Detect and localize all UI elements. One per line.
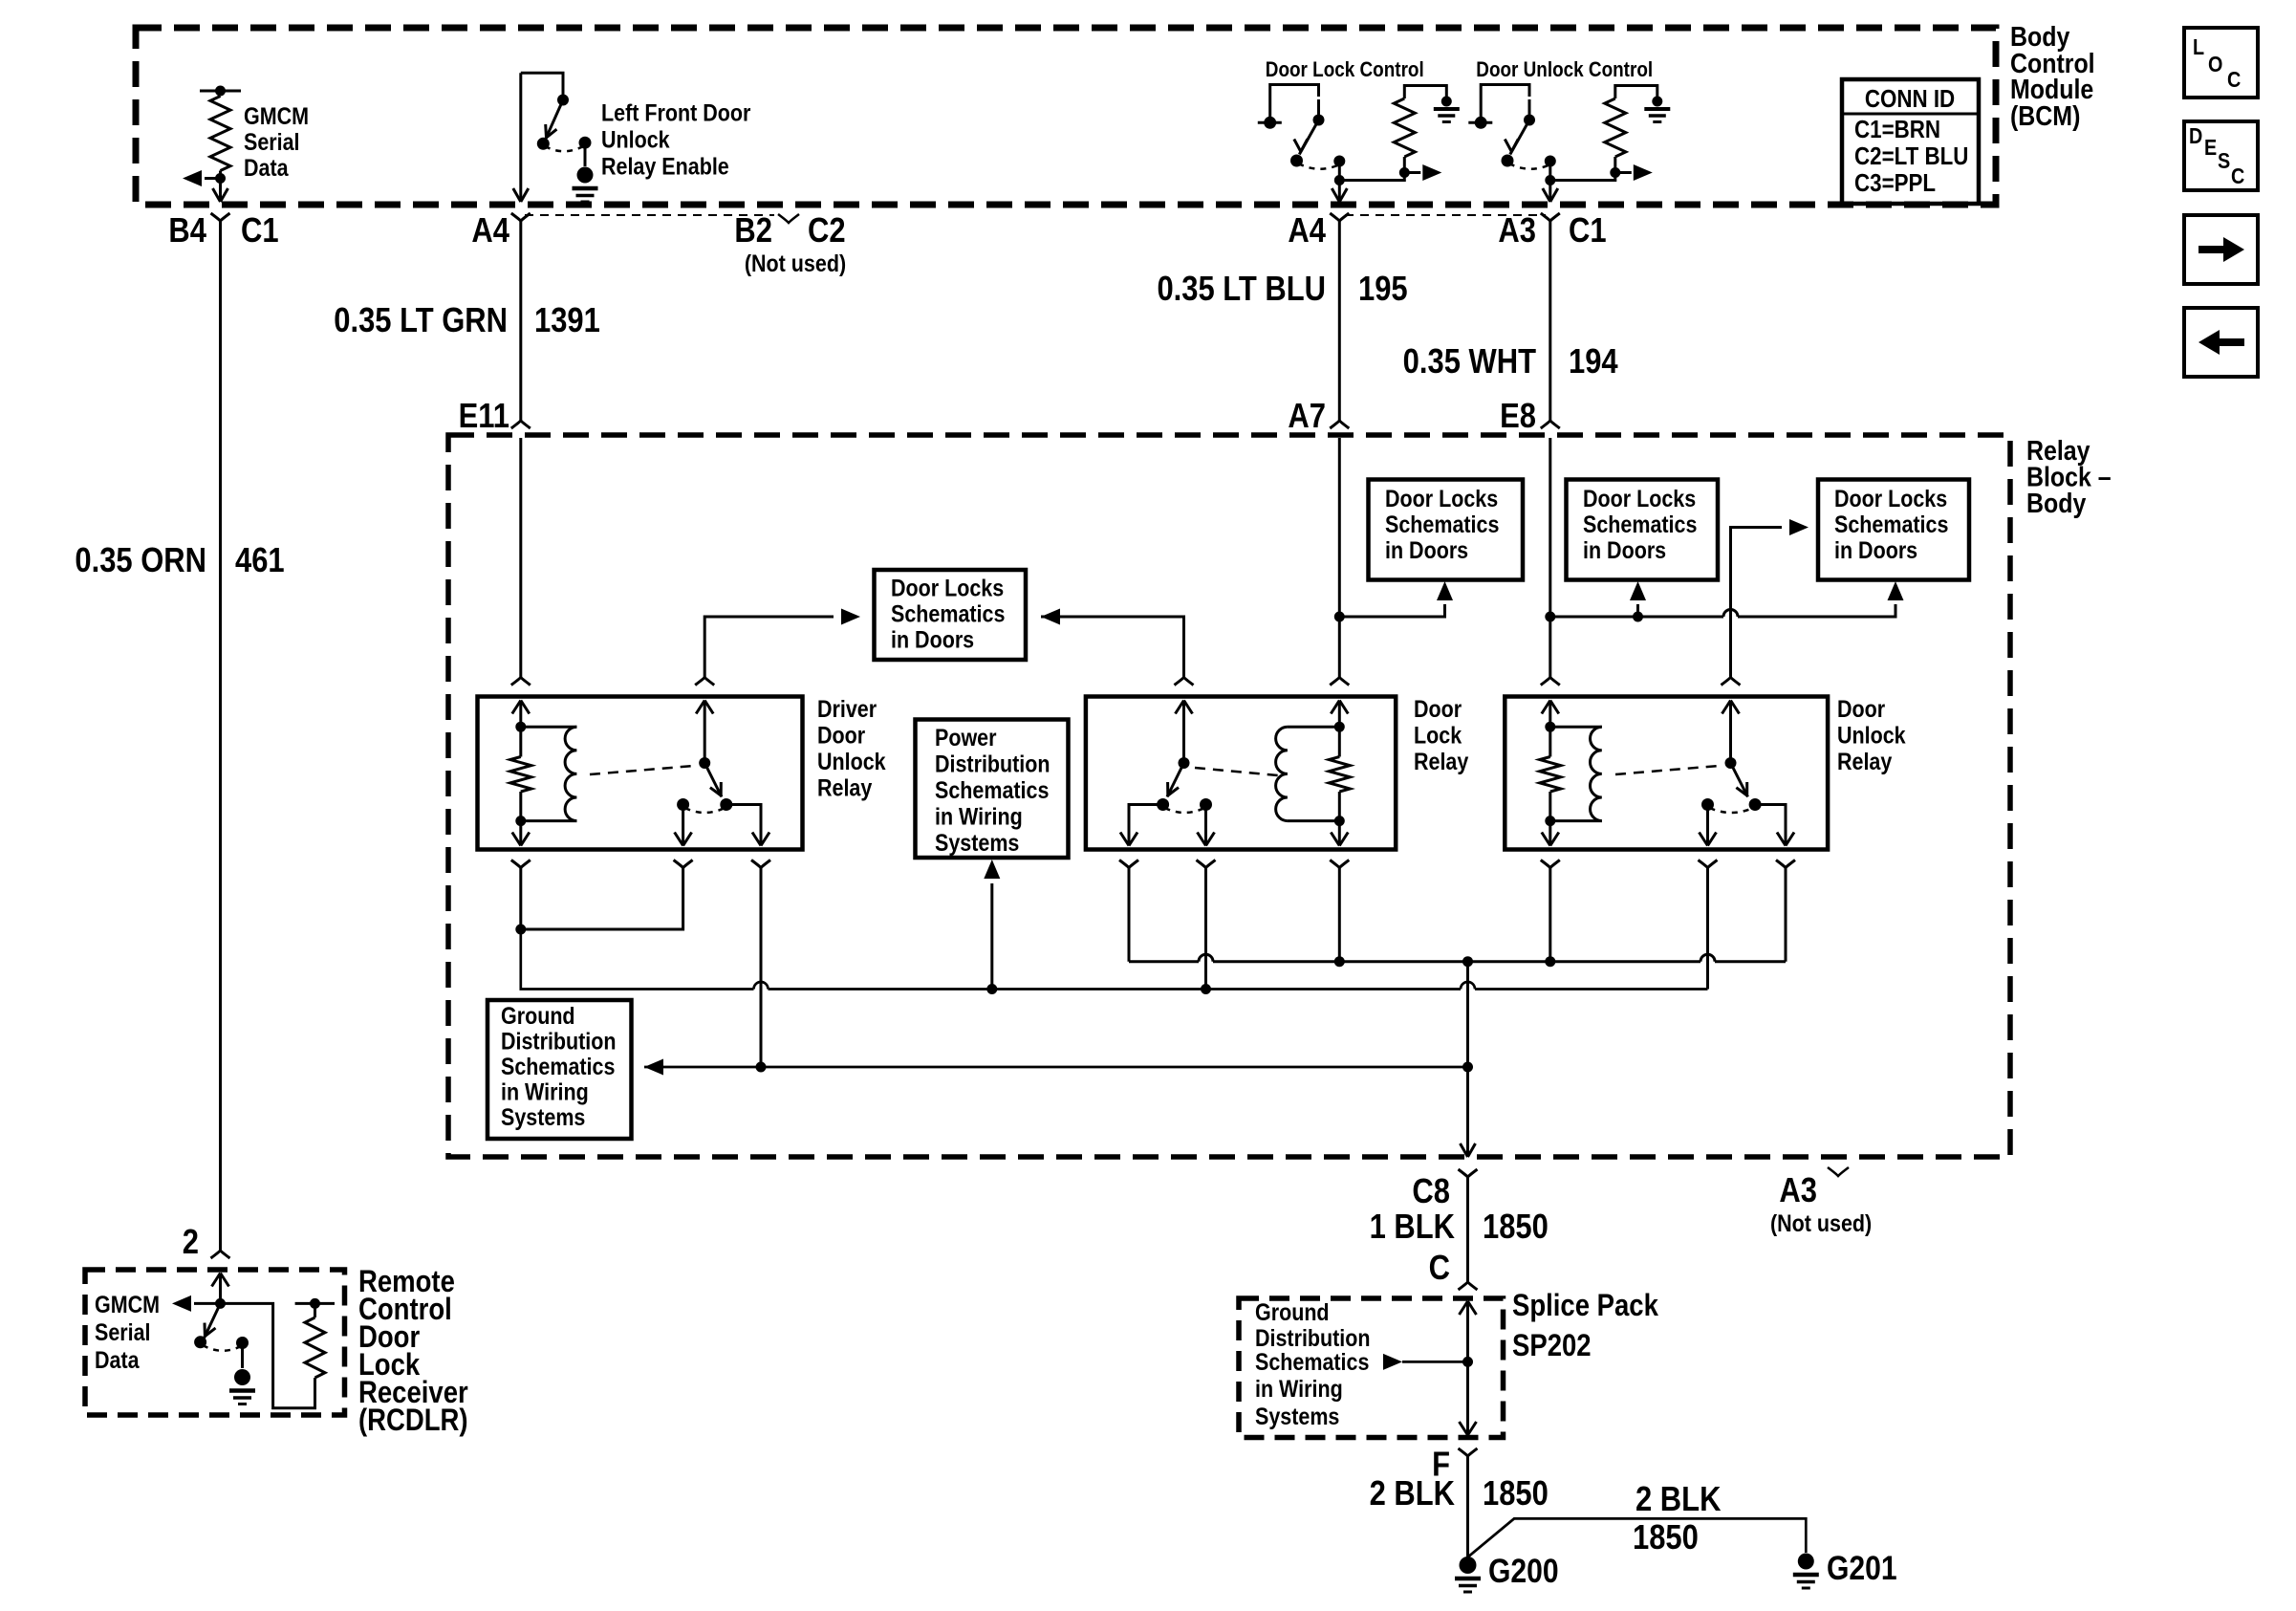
arrow down at BCM border (B4): [213, 188, 228, 202]
svg-text:in Wiring: in Wiring: [501, 1078, 589, 1105]
wire right contact out: [1755, 805, 1786, 846]
arrow GMCM serial data (RCDLR, solid left): [172, 1295, 191, 1312]
junction: [1334, 612, 1345, 622]
connector E11: [511, 421, 531, 428]
wire to ground: [584, 142, 587, 166]
arrow down at relay block border (C8): [1461, 1143, 1476, 1157]
svg-text:in Wiring: in Wiring: [935, 803, 1023, 830]
svg-text:Power: Power: [935, 724, 996, 751]
junction: [1334, 722, 1345, 732]
svg-text:Systems: Systems: [935, 829, 1019, 856]
svg-text:in Wiring: in Wiring: [1255, 1375, 1343, 1402]
wire A4 drop inside BCM: [519, 73, 522, 202]
wire C8 riser: [1466, 962, 1469, 1157]
svg-text:B2: B2: [734, 212, 772, 250]
connector relay switch pin (top): [1722, 678, 1741, 686]
junction: [1462, 1062, 1473, 1073]
junction: [1545, 722, 1555, 732]
connector C2 stub (not used): [778, 214, 799, 223]
box Door Locks Schematics in Doors (1): [875, 570, 1027, 660]
arrow into Door Locks box 1 (left): [841, 609, 860, 625]
svg-text:Ground: Ground: [1255, 1298, 1330, 1325]
svg-text:1 BLK: 1 BLK: [1370, 1208, 1455, 1247]
wire switch arm: [1510, 99, 1529, 155]
svg-text:Schematics: Schematics: [891, 600, 1005, 627]
wire A4 to E11 (0.35 LT GRN 1391): [519, 221, 522, 421]
svg-text:Door Locks: Door Locks: [891, 575, 1004, 601]
relay box Door Unlock Relay: [1505, 697, 1828, 850]
relay box Door Lock Relay: [1086, 697, 1396, 850]
arrow (internal, solid right): [1404, 171, 1420, 174]
svg-text:195: 195: [1358, 271, 1408, 309]
wire E8 to unlock relay coil: [1549, 438, 1551, 659]
svg-text:1391: 1391: [534, 302, 600, 340]
wire to ground: [241, 1343, 244, 1369]
connector F: [1459, 1448, 1478, 1456]
switch dashed arc: [1710, 808, 1754, 813]
wire A7 to lock relay coil: [1338, 438, 1341, 659]
junction bus P: [1334, 956, 1345, 967]
pin arrow (RCDLR top): [212, 1274, 229, 1287]
svg-text:Relay: Relay: [1414, 748, 1468, 774]
junction bus P: [1545, 956, 1555, 967]
svg-text:Systems: Systems: [501, 1103, 585, 1130]
switch pivot: [699, 757, 710, 769]
wire common drop: [1549, 162, 1551, 203]
wire left contact out: [1129, 805, 1163, 846]
wire: [1481, 85, 1529, 123]
arrow into Door Locks box 3: [1630, 581, 1646, 600]
connector below box: [751, 860, 770, 868]
box Door Locks Schematics in Doors (3): [1567, 480, 1719, 580]
svg-text:A3: A3: [1779, 1172, 1817, 1210]
wire left contact down: [1706, 805, 1709, 846]
svg-text:Driver: Driver: [817, 695, 877, 722]
arrow into Door Locks box 4 (bottom): [1888, 581, 1904, 600]
switch dashed arc: [1509, 163, 1550, 169]
svg-text:Schematics: Schematics: [1583, 511, 1697, 537]
switch arm: [546, 100, 564, 141]
wire resistor top stub: [295, 1303, 335, 1317]
wire E11 to relay: [519, 438, 522, 659]
node common: [1333, 156, 1345, 167]
connector A7: [1330, 421, 1349, 428]
svg-text:Data: Data: [95, 1346, 141, 1373]
svg-text:194: 194: [1569, 343, 1618, 381]
connector C (splice pack): [1459, 1282, 1478, 1290]
arrow down at BCM border (A4): [513, 188, 529, 202]
svg-text:CONN ID: CONN ID: [1865, 85, 1955, 113]
switch Door Unlock Control contact stub: [1468, 121, 1492, 124]
coil door unlock relay: [1550, 726, 1602, 729]
wire common drop: [1338, 162, 1341, 203]
junction: [215, 86, 226, 97]
svg-text:A4: A4: [1288, 212, 1326, 250]
svg-text:A3: A3: [1498, 212, 1536, 250]
resistor relay coil (unlock): [1549, 727, 1551, 756]
svg-text:Relay: Relay: [1837, 748, 1892, 774]
table CONN ID box: [1842, 79, 1979, 204]
svg-text:Door Locks: Door Locks: [1834, 485, 1947, 512]
switch contact: [1264, 117, 1276, 129]
connector C1 pin A4: [511, 213, 531, 221]
wire from Door Locks box 1 to lock relay pivot: [1041, 617, 1184, 659]
junction: [1633, 612, 1643, 622]
ground Door Lock Control: [1441, 97, 1452, 107]
connector below box: [1699, 860, 1718, 868]
resistor GMCM serial data: [210, 97, 230, 171]
box Door Locks Schematics in Doors (2): [1369, 480, 1524, 580]
wire right contact down: [1204, 805, 1207, 846]
connector E8: [1541, 421, 1560, 428]
junction: [1334, 175, 1345, 185]
connector below box: [1541, 860, 1560, 868]
wire: [1270, 85, 1319, 123]
svg-text:E: E: [2204, 136, 2217, 161]
svg-text:C: C: [2227, 68, 2241, 93]
svg-text:461: 461: [235, 542, 285, 580]
module box Remote Control Door Lock Receiver dashed outline: [85, 1270, 345, 1415]
svg-text:2: 2: [183, 1224, 199, 1262]
legend box DESC: [2184, 121, 2258, 190]
svg-text:C: C: [2231, 164, 2244, 189]
wire A3 to E8 (0.35 WHT 194): [1549, 221, 1551, 421]
junction: [1545, 175, 1555, 185]
switch pivot: [1725, 757, 1737, 769]
svg-text:C3=PPL: C3=PPL: [1854, 169, 1936, 197]
svg-text:Splice Pack: Splice Pack: [1512, 1289, 1658, 1322]
wire unlock pivot to Door Locks box 4: [1731, 528, 1783, 678]
svg-text:Left Front Door: Left Front Door: [601, 99, 750, 126]
coil driver door unlock relay: [521, 726, 577, 729]
svg-text:C: C: [1429, 1250, 1450, 1288]
svg-text:0.35 WHT: 0.35 WHT: [1403, 343, 1537, 381]
wire RCDLR resistor loop: [221, 1303, 315, 1407]
junction: [1462, 956, 1473, 967]
arrow ground distribution reference: [1383, 1354, 1402, 1370]
wire branch to G201 (2 BLK 1850): [1468, 1518, 1807, 1557]
connector relay coil pin (top): [1330, 678, 1349, 686]
wire switch top link: [521, 73, 563, 97]
pin arrow: [1331, 701, 1348, 714]
wire bus G (ground side): [521, 929, 1708, 990]
svg-text:Door Locks: Door Locks: [1583, 485, 1696, 512]
connector relay coil pin (top): [1541, 678, 1560, 686]
svg-text:Schematics: Schematics: [935, 776, 1049, 803]
svg-text:G201: G201: [1827, 1549, 1897, 1587]
svg-text:Door Lock Control: Door Lock Control: [1266, 58, 1424, 82]
svg-text:Schematics: Schematics: [1255, 1348, 1369, 1375]
svg-text:Serial: Serial: [244, 128, 300, 155]
switch contact: [1502, 155, 1514, 167]
switch contact (left): [1701, 798, 1714, 811]
coil-switch dashed link: [1195, 768, 1278, 775]
connector pin A3/C1: [1541, 213, 1560, 221]
net C2 connector line (dashed): [525, 214, 774, 216]
svg-text:(BCM): (BCM): [2010, 100, 2080, 131]
relay box Driver Door Unlock Relay: [478, 697, 803, 850]
box Power Distribution Schematics in Wiring Systems: [916, 720, 1069, 859]
switch dashed arc: [1165, 808, 1205, 813]
svg-text:Door: Door: [1837, 695, 1885, 722]
wire 2 BLK 1850 (to G200): [1466, 1456, 1469, 1557]
wire riser box 3: [1636, 604, 1639, 617]
net link to Door Locks boxes 3 and 4: [1550, 604, 1895, 617]
connector pin A4 (lock): [1330, 213, 1349, 221]
svg-text:Data: Data: [244, 154, 290, 181]
svg-text:Distribution: Distribution: [501, 1028, 617, 1055]
svg-text:in Doors: in Doors: [1385, 536, 1468, 563]
svg-text:Schematics: Schematics: [501, 1053, 615, 1079]
svg-text:GMCM: GMCM: [95, 1291, 160, 1317]
svg-text:C2: C2: [808, 212, 846, 250]
svg-text:(Not used): (Not used): [745, 250, 846, 276]
switch contact (ground side): [236, 1337, 249, 1349]
svg-text:G200: G200: [1488, 1552, 1559, 1590]
svg-text:SP202: SP202: [1512, 1329, 1592, 1362]
wire to Door Locks box 2: [1339, 604, 1444, 617]
svg-text:in Doors: in Doors: [1834, 536, 1917, 563]
module box: Relay Block - Body dashed outline: [448, 435, 2010, 1157]
wire riser to Power Distribution box: [990, 883, 993, 990]
svg-text:Body: Body: [2026, 488, 2086, 518]
svg-text:C1: C1: [1569, 212, 1607, 250]
switch Door Lock Control contact stub: [1258, 121, 1282, 124]
switch contact (left): [1157, 798, 1169, 811]
wire 1 BLK 1850: [1466, 1177, 1469, 1282]
svg-text:(RCDLR): (RCDLR): [358, 1404, 468, 1437]
wire pivot riser to Door Locks box 1: [704, 617, 834, 678]
wire right contact: [726, 805, 761, 846]
resistor Door Unlock Control: [1614, 157, 1616, 173]
svg-text:2 BLK: 2 BLK: [1370, 1475, 1455, 1513]
switch dashed arc: [545, 145, 585, 151]
svg-text:1850: 1850: [1633, 1519, 1699, 1557]
junction: [215, 173, 226, 184]
legend box right-arrow: [2184, 215, 2258, 284]
net C2 connector line A4-A3 (dashed): [1345, 214, 1546, 216]
connector relay switch pin (top): [1175, 678, 1194, 686]
svg-text:Distribution: Distribution: [1255, 1324, 1371, 1351]
switch Left Front Door Unlock Relay Enable: pivot: [557, 95, 569, 106]
junction bus G: [1201, 984, 1211, 994]
box Door Locks Schematics in Doors (4): [1818, 480, 1969, 580]
arrow into Power Distribution box: [984, 860, 1000, 879]
box Ground Distribution Schematics in Wiring Systems: [487, 1000, 632, 1139]
switch dashed arc: [685, 808, 726, 813]
switch contact: [537, 138, 550, 150]
resistor Door Lock Control: [1403, 157, 1406, 173]
arrow into Ground Distribution box: [644, 1059, 663, 1076]
svg-text:1850: 1850: [1483, 1208, 1549, 1247]
switch arm (RCDLR): [205, 1303, 221, 1338]
connector relay switch pin (top): [695, 678, 714, 686]
switch contact: [194, 1336, 206, 1348]
wire bus A (driver coil to left contact): [521, 928, 683, 931]
pin arrow (bottom): [1338, 821, 1341, 846]
svg-text:Schematics: Schematics: [1834, 511, 1948, 537]
node common: [1545, 156, 1556, 167]
junction: [1399, 167, 1410, 178]
svg-text:in Doors: in Doors: [1583, 536, 1666, 563]
svg-text:L: L: [2193, 35, 2204, 60]
junction bus A: [515, 925, 526, 935]
ground (RCDLR internal): [234, 1369, 250, 1385]
arrow down at BCM border (A4 lock): [1332, 188, 1347, 202]
switch contact: [1475, 117, 1487, 129]
svg-text:Unlock: Unlock: [1837, 722, 1906, 749]
svg-text:D: D: [2189, 124, 2202, 149]
connector C1 pin B4 (BCM side): [211, 213, 230, 221]
svg-text:Schematics: Schematics: [1385, 511, 1499, 537]
switch arm: [1167, 763, 1184, 797]
connector below box: [1330, 860, 1349, 868]
connector below box: [674, 860, 693, 868]
arrow into Door Locks box 2: [1437, 581, 1453, 600]
svg-text:B4: B4: [168, 212, 206, 250]
junction: [1545, 612, 1555, 622]
ground G200: [1460, 1557, 1477, 1574]
svg-text:C1=BRN: C1=BRN: [1854, 116, 1940, 143]
svg-text:GMCM: GMCM: [244, 102, 309, 129]
pin arrow: [512, 701, 530, 714]
legend box left-arrow: [2184, 308, 2258, 377]
switch pivot: [1313, 115, 1325, 126]
svg-text:Door: Door: [1414, 695, 1462, 722]
svg-text:1850: 1850: [1483, 1475, 1549, 1513]
arrow (internal, solid right): [1615, 171, 1632, 174]
wire left contact down: [682, 805, 684, 846]
switch pivot: [1524, 115, 1535, 126]
wire ground distribution link: [644, 1066, 1468, 1069]
svg-text:E8: E8: [1500, 398, 1536, 436]
switch contact (right): [1200, 798, 1212, 811]
wire link to resistor: [1339, 173, 1404, 181]
pin arrow (bottom): [1549, 821, 1551, 846]
junction: [310, 1298, 320, 1309]
svg-text:E11: E11: [459, 398, 509, 436]
switch contact (right): [720, 798, 732, 811]
connector below box: [511, 860, 531, 868]
svg-text:Unlock: Unlock: [601, 126, 670, 153]
wire resistor top: [1404, 86, 1446, 99]
wire bus P (power side): [1129, 960, 1786, 963]
arrow into Door Locks box 4 (left): [1789, 519, 1809, 535]
arrow down at BCM border (A3): [1543, 188, 1558, 202]
junction: [215, 1298, 226, 1309]
svg-text:C1: C1: [241, 212, 279, 250]
svg-text:0.35 LT GRN: 0.35 LT GRN: [334, 302, 508, 340]
svg-text:A7: A7: [1288, 398, 1326, 436]
svg-text:Lock: Lock: [1414, 722, 1462, 749]
switch dashed arc: [1298, 163, 1339, 169]
module box: Body Control Module (BCM) dashed outline: [136, 28, 1996, 205]
resistor RCDLR pull-up: [305, 1317, 325, 1378]
wire link to resistor: [1550, 173, 1615, 181]
svg-text:C8: C8: [1412, 1173, 1450, 1211]
connector below box: [1776, 860, 1795, 868]
pin arrow: [1542, 701, 1559, 714]
coil-switch dashed link: [1615, 766, 1719, 774]
pin arrow: [696, 701, 713, 714]
svg-text:0.35 LT BLU: 0.35 LT BLU: [1157, 271, 1326, 309]
pin arrow (bottom): [519, 821, 522, 846]
svg-text:in Doors: in Doors: [891, 626, 974, 653]
svg-text:C2=LT BLU: C2=LT BLU: [1854, 142, 1968, 170]
svg-text:S: S: [2218, 149, 2230, 174]
junction: [515, 722, 526, 732]
connector RCDLR pin 2: [211, 1251, 230, 1258]
svg-text:Door Unlock Control: Door Unlock Control: [1476, 58, 1653, 82]
junction: [1462, 1357, 1473, 1367]
svg-text:Relay: Relay: [817, 774, 872, 801]
connector C8: [1459, 1169, 1478, 1177]
wire A4 to A7 (0.35 LT BLU 195): [1338, 221, 1341, 421]
wire switch arm: [1299, 99, 1318, 155]
svg-text:Distribution: Distribution: [935, 751, 1051, 777]
ground (switch enable): [577, 167, 594, 184]
switch pivot: [1179, 757, 1190, 769]
legend box LOC: [2184, 28, 2258, 98]
junction: [1545, 816, 1555, 826]
arrow GMCM serial data (left, solid): [183, 170, 202, 186]
switch arm: [1731, 763, 1748, 797]
svg-text:Systems: Systems: [1255, 1403, 1339, 1429]
wire C1-B4 to RCDLR (0.35 ORN 461): [219, 221, 222, 1251]
svg-text:O: O: [2208, 53, 2222, 77]
connector relay coil pin (top): [511, 678, 531, 686]
switch contact (left): [677, 798, 689, 811]
junction: [515, 816, 526, 826]
svg-text:A4: A4: [471, 212, 509, 250]
svg-text:Door: Door: [817, 722, 865, 749]
pin arrow: [1722, 701, 1740, 714]
svg-text:(Not used): (Not used): [1770, 1209, 1872, 1236]
node GMCM serial data rail stub: [200, 90, 241, 93]
connector below box: [1119, 860, 1138, 868]
svg-text:Door Locks: Door Locks: [1385, 485, 1498, 512]
resistor relay coil (driver): [519, 727, 522, 756]
svg-text:Unlock: Unlock: [817, 748, 886, 774]
switch contact: [1290, 155, 1303, 167]
wire: [219, 171, 222, 203]
pin arrow: [1176, 701, 1193, 714]
coil door lock relay: [1288, 726, 1339, 729]
switch contact (right): [1749, 798, 1762, 811]
switch contact (relay enable): [579, 137, 592, 149]
svg-text:2 BLK: 2 BLK: [1635, 1481, 1721, 1519]
connector A3 stub (not used): [1828, 1167, 1849, 1176]
coil-switch dashed link: [590, 766, 694, 774]
ground Door Unlock Control: [1652, 97, 1662, 107]
svg-text:0.35 ORN: 0.35 ORN: [75, 542, 206, 580]
junction: [986, 984, 997, 994]
resistor relay coil (lock): [1338, 727, 1341, 756]
pin arrow (splice pack top): [1460, 1301, 1477, 1315]
svg-text:Relay Enable: Relay Enable: [601, 153, 729, 180]
ground G201: [1798, 1554, 1814, 1570]
module box Splice Pack SP202 dashed outline: [1239, 1298, 1504, 1438]
wire inside splice pack: [1466, 1301, 1469, 1435]
arrow into Door Locks box 1 (right): [1041, 609, 1060, 625]
junction: [1610, 167, 1620, 178]
connector below box: [1197, 860, 1216, 868]
switch arm: [704, 763, 722, 797]
wire inside RCDLR: [219, 1274, 222, 1304]
svg-text:Ground: Ground: [501, 1002, 575, 1029]
junction: [756, 1062, 767, 1073]
wire resistor top: [1615, 86, 1657, 99]
